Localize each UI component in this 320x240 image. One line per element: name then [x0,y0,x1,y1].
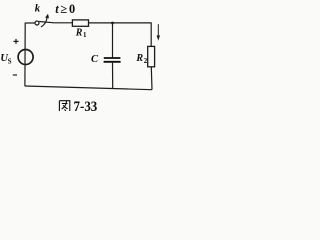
resistor R2 box [148,46,155,66]
wire top-left horizontal (corner to switch) [25,22,35,24]
current arrow i (down) [157,24,159,36]
voltage source US circle [18,50,33,65]
capacitor branch upper wire [112,23,114,57]
wire bottom horizontal [25,86,152,90]
svg-text:t≥0: t≥0 [55,2,77,16]
svg-text:1: 1 [83,31,87,39]
svg-text:2: 2 [144,57,148,65]
capacitor C plates [104,57,121,59]
plus sign [14,39,19,44]
svg-text:R: R [135,53,143,64]
switch closing arc arrow [41,17,47,27]
svg-text:7-33: 7-33 [74,99,98,111]
svg-text:C: C [91,54,99,65]
wire right vertical top (corner to R2) [150,22,152,46]
caption glyph 图 (drawn) [59,101,69,111]
resistor R1 box [72,20,88,26]
capacitor branch lower wire [112,63,114,89]
node junction dot [111,22,114,25]
svg-text:S: S [8,57,12,65]
minus sign [13,74,17,76]
switch k pivot circle [35,21,39,25]
wire R1 to top-right corner [89,22,152,24]
svg-text:R: R [75,28,83,39]
wire left vertical (corner down through source to bottom) [24,23,26,87]
svg-text:k: k [35,2,41,14]
wire right vertical bottom (R2 to corner) [150,67,153,90]
switch blade / wire to R1 [39,22,72,23]
